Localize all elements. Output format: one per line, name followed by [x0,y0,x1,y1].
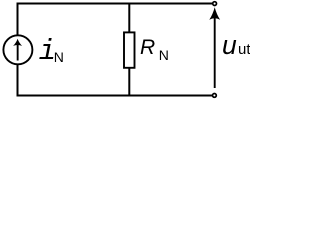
wire left vertical lower [17,64,19,97]
current source arrow [13,39,22,61]
svg-text:R: R [140,36,155,59]
terminal top right [213,2,217,6]
svg-text:N: N [159,47,169,63]
wire resistor branch [128,3,130,97]
svg-text:N: N [54,49,64,65]
wire bottom horizontal [18,95,213,97]
voltage arrow u_ut [209,7,220,88]
resistor RN body [124,32,135,67]
terminal bottom right [213,94,217,98]
current source iN [3,35,32,64]
svg-text:ut: ut [238,41,250,58]
wire left vertical upper [17,3,19,37]
svg-text:u: u [222,30,237,60]
wire top horizontal [18,3,213,5]
